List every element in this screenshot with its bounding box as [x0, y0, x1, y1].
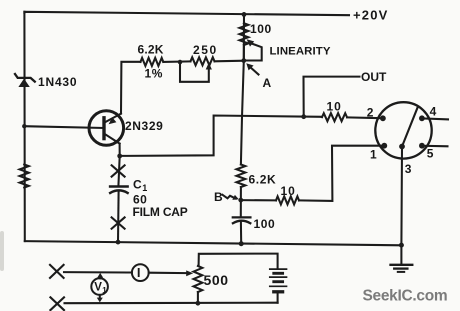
- svg-text:C1: C1: [133, 177, 148, 193]
- svg-text:3: 3: [405, 162, 412, 176]
- svg-text:OUT: OUT: [361, 70, 387, 84]
- svg-text:10: 10: [327, 100, 342, 114]
- svg-text:A: A: [263, 76, 272, 90]
- svg-text:FILM CAP: FILM CAP: [133, 205, 188, 219]
- svg-text:500: 500: [204, 272, 229, 288]
- svg-text:6.2K: 6.2K: [138, 43, 164, 57]
- svg-text:10: 10: [281, 184, 296, 198]
- svg-text:B: B: [214, 190, 223, 204]
- svg-text:6.2K: 6.2K: [249, 173, 277, 187]
- svg-text:V1: V1: [94, 282, 107, 295]
- svg-text:+20V: +20V: [353, 8, 389, 23]
- svg-text:2: 2: [367, 105, 374, 119]
- svg-text:4: 4: [430, 105, 437, 119]
- svg-text:SeekIC.com: SeekIC.com: [363, 288, 448, 305]
- svg-text:1: 1: [370, 148, 377, 162]
- svg-text:1N430: 1N430: [38, 75, 77, 89]
- svg-text:100: 100: [250, 22, 272, 36]
- svg-text:250: 250: [193, 43, 218, 57]
- svg-text:5: 5: [427, 147, 434, 161]
- svg-text:1%: 1%: [145, 67, 164, 81]
- svg-text:100: 100: [254, 217, 276, 231]
- svg-text:2N329: 2N329: [125, 119, 163, 133]
- svg-text:LINEARITY: LINEARITY: [270, 46, 331, 58]
- svg-text:I: I: [137, 265, 141, 280]
